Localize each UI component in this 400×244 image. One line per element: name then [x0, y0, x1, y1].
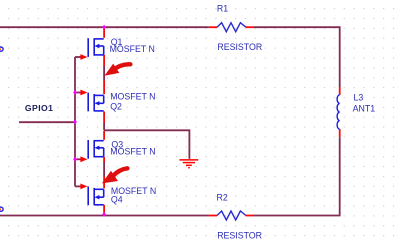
svg-text:RESISTOR: RESISTOR — [217, 231, 262, 241]
svg-text:MOSFET N: MOSFET N — [110, 91, 155, 101]
svg-text:Q4: Q4 — [111, 195, 123, 205]
svg-text:RESISTOR: RESISTOR — [217, 42, 262, 52]
svg-text:L3: L3 — [354, 92, 364, 102]
svg-text:R1: R1 — [217, 4, 228, 14]
svg-text:ANT1: ANT1 — [353, 103, 376, 113]
svg-text:R2: R2 — [217, 192, 228, 202]
svg-text:MOSFET N: MOSFET N — [110, 44, 155, 54]
svg-text:Q2: Q2 — [110, 102, 122, 112]
svg-text:GPIO1: GPIO1 — [25, 103, 54, 113]
svg-text:MOSFET N: MOSFET N — [110, 146, 155, 156]
